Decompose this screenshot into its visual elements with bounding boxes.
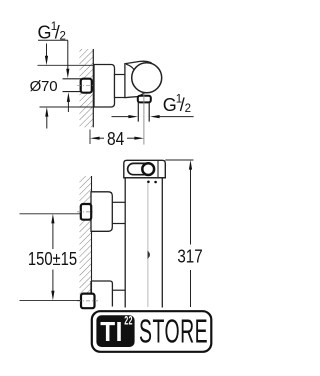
column left edge — [124, 178, 126, 308]
union fitting on wall (top view) — [81, 79, 92, 93]
leader arrow from G1/2 down to inlet pipe top — [66, 41, 69, 79]
dimension 150±15 text — [28, 248, 77, 269]
svg-text:22: 22 — [124, 315, 133, 328]
outlet collar nut — [138, 96, 151, 103]
wall hatch (top view) — [80, 49, 94, 127]
dimension 150±15: bottom extension line — [20, 299, 81, 301]
wall hatch (front view) — [80, 176, 92, 295]
horn concave front curve — [126, 64, 143, 91]
logo outer rounded box — [92, 311, 212, 352]
dimension 84 text — [107, 129, 124, 150]
head box bottom edge — [124, 177, 166, 179]
arrow pointing up at inlet pipe bottom (G1/2) — [67, 92, 70, 112]
bottom nut centerline — [77, 300, 98, 302]
dimension 317 text — [177, 246, 202, 267]
svg-text:84: 84 — [107, 129, 124, 150]
top connector tube — [112, 201, 125, 203]
svg-text:G: G — [163, 95, 177, 115]
fitting centerline — [77, 85, 95, 87]
dot marker A under head box — [147, 181, 150, 184]
bottom escutcheon (front view, bottom cut by logo area) — [91, 281, 112, 307]
outlet pipe centerline — [143, 94, 145, 145]
dimension 84: left extension line (wall face) — [89, 130, 91, 145]
Ø70 top extension line — [38, 64, 95, 66]
G1/2 outlet: left line with right-pointing arrow — [112, 115, 139, 118]
wall face line (top view) — [92, 49, 94, 127]
svg-text:G: G — [38, 23, 52, 43]
column button bump — [148, 251, 150, 258]
top nut centerline — [77, 211, 95, 213]
head box divider — [157, 160, 159, 178]
Ø70 top arrow (outside, pointing down) — [45, 44, 48, 66]
wall face line (front view) — [91, 176, 93, 295]
thermostat body horn — [125, 61, 152, 97]
dimension 317: top extension line — [165, 159, 193, 161]
top union nut — [81, 204, 91, 220]
outlet pipe — [137, 102, 139, 121]
svg-text:2: 2 — [185, 103, 191, 115]
column right edge — [161, 178, 163, 308]
control head box — [124, 160, 166, 178]
logo TI text — [100, 315, 123, 347]
dimension 317 line with arrows — [189, 160, 192, 307]
flange / escutcheon (top view) — [94, 65, 115, 108]
top escutcheon (front view) — [91, 192, 112, 232]
logo TI badge — [96, 315, 134, 347]
knob circle (handle, side view) — [132, 63, 162, 93]
Ø70 bottom arrow (outside, pointing up) — [45, 107, 48, 129]
dimension 150±15: top extension line — [20, 213, 81, 215]
label G 1/2 (outlet thread, right) — [163, 93, 191, 115]
connector barrel — [115, 75, 127, 98]
column centerline — [147, 183, 149, 307]
svg-text:TI: TI — [100, 315, 123, 347]
pill ring knob — [142, 163, 154, 175]
svg-text:317: 317 — [177, 246, 202, 267]
svg-text:STORE: STORE — [139, 312, 208, 350]
pill control (stadium) — [128, 163, 151, 174]
dimension 84 line with outward arrows — [90, 137, 144, 140]
svg-text:Ø70: Ø70 — [30, 78, 58, 95]
svg-text:150±15: 150±15 — [28, 248, 77, 269]
dimension 150±15 line with arrows — [51, 214, 54, 301]
leader underline of G 1/2 label — [38, 39, 68, 41]
logo 22 superscript — [124, 315, 133, 328]
logo STORE text — [139, 312, 208, 350]
bottom connector tube top line — [112, 289, 125, 291]
Ø70 bottom extension line — [40, 106, 95, 108]
label G 1/2 (inlet thread, top-left) — [38, 21, 66, 43]
bottom union nut — [81, 294, 95, 309]
dot marker B under head box — [154, 181, 157, 184]
inlet pipe (behind wall) — [63, 78, 82, 80]
G1/2 outlet: right leader line with left-pointing arrow — [150, 115, 194, 118]
